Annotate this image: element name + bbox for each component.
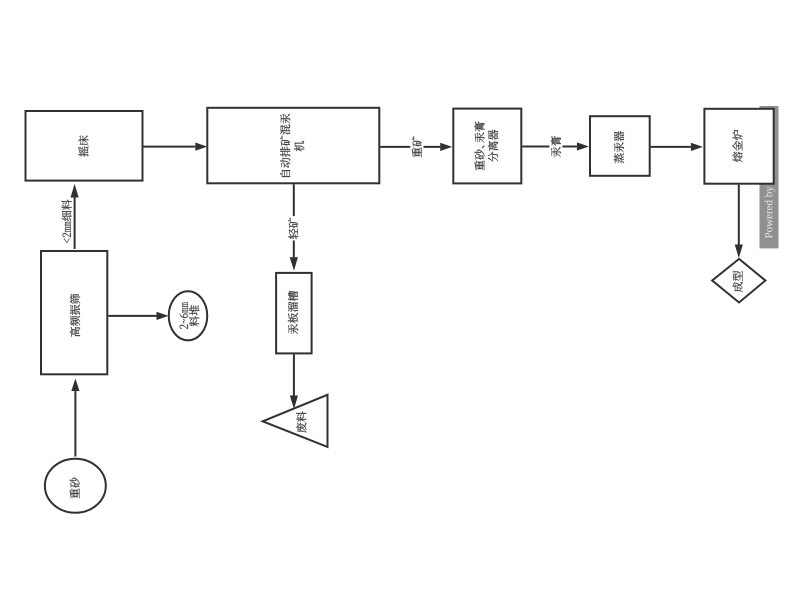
arrow flow 高频振筛 to 2~6mm料堆 <box>108 315 156 317</box>
label 废料 <box>296 411 306 432</box>
decision diamond 成型 <box>712 259 765 303</box>
label 成型 <box>733 271 743 292</box>
label 高频振筛 <box>70 294 80 337</box>
edge label 汞膏 background <box>549 134 562 158</box>
arrow flow 熔金炉 to 成型 <box>738 185 740 245</box>
process box 熔金炉 <box>704 109 773 184</box>
process box 重砂、汞膏分离器 <box>453 109 521 184</box>
label 重砂 <box>70 477 80 498</box>
watermark banner text Powered by <box>765 133 775 239</box>
arrow flow 混汞机 to 汞板溜槽 <box>293 184 295 257</box>
label 重砂汞膏分离器 <box>474 121 498 170</box>
edge label 轻矿 <box>288 218 298 239</box>
edge label <2mm细料 <box>62 200 72 243</box>
arrow flow 汞板溜槽 to 废料 <box>293 354 295 395</box>
merge triangle 废料 <box>263 395 328 447</box>
process box 汞板溜槽 <box>276 273 312 354</box>
arrow flow 蒸汞器 to 熔金炉 <box>651 146 691 148</box>
arrow flow 自动排矿混汞机 to 分离器 <box>380 146 440 148</box>
watermark banner background <box>760 106 779 248</box>
label 蒸汞器 <box>614 131 624 163</box>
edge label 轻矿 background <box>287 216 300 240</box>
label 自动排矿混汞机 <box>280 114 304 177</box>
edge label 汞膏 <box>551 136 561 157</box>
process box 摇床 <box>26 111 143 181</box>
edge label 重矿 <box>412 136 422 157</box>
label 摇床 <box>78 135 88 156</box>
process box 自动排矿混汞机 <box>207 108 379 184</box>
label 汞板溜槽 <box>288 291 298 334</box>
label 熔金炉 <box>732 130 742 162</box>
arrow flow 高频振筛 to 摇床 <box>74 198 76 250</box>
arrow flow 重砂 to 高频振筛 <box>74 391 76 457</box>
terminator ellipse 2~6mm料堆 <box>169 291 208 340</box>
terminator circle 重砂 <box>45 459 106 513</box>
edge label 重矿 background <box>410 135 423 159</box>
process box 高频振筛 <box>41 251 107 374</box>
label 2~6mm料堆 <box>180 302 200 329</box>
arrow flow 摇床 to 自动排矿混汞机 <box>144 146 196 148</box>
arrow flow 分离器 to 蒸汞器 <box>522 146 577 148</box>
process box 蒸汞器 <box>590 116 650 176</box>
